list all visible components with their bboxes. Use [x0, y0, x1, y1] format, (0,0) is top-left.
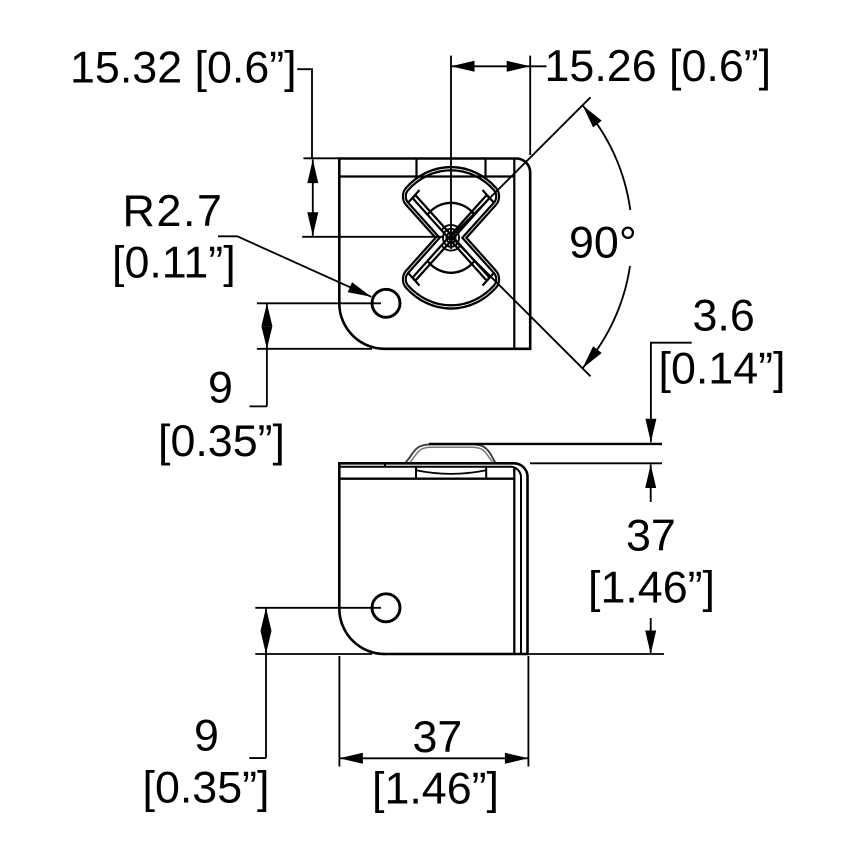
svg-text:[0.11”]: [0.11”]: [112, 238, 236, 288]
dim 15.26 dimension line: [451, 65, 547, 67]
bottom view tab tick 3: [485, 467, 487, 479]
bottom view hole: [372, 594, 400, 622]
bottom view line3: [339, 468, 514, 655]
dim 9 top view arrow down: [261, 326, 272, 349]
90 degree arc lower segment: [583, 266, 631, 368]
dim 3.6 arrow down: [645, 419, 656, 443]
dim 15.32 arrow down: [307, 212, 318, 236]
dim 37 right shaft bottom: [650, 618, 652, 654]
top fan middle arc: [427, 203, 474, 215]
dim 15.26 arrow left: [451, 61, 475, 72]
dim 37 bottom right extension: [527, 656, 529, 767]
svg-text:R2.7: R2.7: [123, 186, 224, 236]
bottom view line2: [339, 467, 521, 654]
bowtie crease outline: [403, 167, 499, 308]
dim 37 bottom arrow left: [339, 753, 363, 764]
dim 37 bottom arrow right: [505, 753, 529, 764]
svg-text:[1.46”]: [1.46”]: [588, 563, 715, 613]
cap fold tick lower-left: [408, 273, 419, 286]
svg-text:37: 37: [626, 511, 676, 561]
dim 37 bottom left extension: [338, 656, 340, 767]
top view bend vertical line: [513, 159, 515, 349]
R2.7 leader: [218, 236, 371, 296]
90 degree line lower: [451, 237, 591, 376]
dim 9 bottom arrow down: [261, 631, 272, 654]
dim 15.32 dimension line: [312, 160, 314, 236]
svg-text:90°: 90°: [569, 218, 637, 268]
svg-text:[0.35”]: [0.35”]: [143, 763, 270, 813]
dim 9 bottom tick: [249, 757, 266, 759]
bottom view hole centerline: [255, 607, 381, 609]
dim 37 right shaft top: [650, 465, 652, 503]
90 degree arc arrow bottom: [583, 346, 602, 368]
dim 37 right arrow up: [645, 465, 656, 489]
svg-text:37: 37: [413, 712, 463, 762]
90 degree line upper: [451, 97, 591, 237]
svg-text:[1.46”]: [1.46”]: [372, 763, 499, 813]
bottom edge extension right: [529, 653, 665, 655]
svg-text:15.26 [0.6”]: 15.26 [0.6”]: [545, 41, 772, 91]
dim 9 top view arrow up: [261, 303, 272, 326]
dim 15.32 arrow up: [307, 160, 318, 184]
svg-text:3.6: 3.6: [693, 291, 755, 341]
bottom fan tiny arc: [442, 245, 461, 250]
dim 37 right arrow down: [645, 631, 656, 655]
slot A inner stadium: [412, 195, 489, 281]
dome inner: [410, 447, 493, 462]
svg-text:[0.35”]: [0.35”]: [158, 416, 285, 466]
svg-text:9: 9: [208, 362, 233, 412]
dim 9 top view tick: [250, 405, 267, 407]
bottom fan middle arc: [427, 261, 474, 273]
dome outer: [406, 444, 496, 462]
top view bend inner line: [339, 175, 514, 177]
dim 9 bottom view dimension line: [265, 608, 267, 758]
center circle large: [443, 229, 459, 247]
cap fold tick upper-right: [483, 190, 494, 203]
dim 15.32 leader from text: [297, 69, 312, 158]
top edge extension line: [530, 462, 662, 464]
svg-text:15.32 [0.6”]: 15.32 [0.6”]: [70, 43, 297, 93]
cap fold tick lower-right: [483, 273, 494, 286]
bottom view tab tick 2: [415, 467, 417, 479]
bowtie cutout edge: [406, 170, 496, 305]
svg-text:9: 9: [194, 711, 219, 761]
top view hole centerline: [257, 302, 381, 304]
dim 9 bottom arrow up: [261, 608, 272, 631]
top view tab tick right: [484, 159, 486, 177]
center circle small: [446, 233, 455, 243]
dim 15.32 extension line top: [303, 157, 338, 159]
dim 9 top view extension bottom: [257, 348, 372, 350]
dome top extension line: [429, 443, 662, 445]
bottom view outline: [339, 463, 527, 654]
dim 15.26 arrow right: [507, 61, 531, 72]
horizontal centerline to X: [302, 236, 444, 238]
top fan tiny arc: [442, 225, 461, 230]
bottom view tab tick 1: [384, 463, 386, 467]
dim 37 bottom dimension line: [339, 757, 528, 759]
dim 9 top view dimension line: [266, 303, 268, 406]
slot B inner stadium: [412, 195, 489, 281]
dim 3.6 leader bracket: [651, 343, 692, 443]
R2.7 leader arrow: [348, 282, 372, 297]
dim 15.26 right extension line: [529, 56, 531, 155]
bottom edge extension left: [255, 653, 372, 655]
top view hole: [372, 289, 400, 317]
bottom view tab sag curve: [416, 470, 486, 474]
cap fold tick upper-left: [408, 190, 419, 203]
90 degree arc upper segment: [583, 105, 631, 210]
svg-text:[0.14”]: [0.14”]: [659, 344, 786, 394]
top view tab tick left: [415, 159, 417, 177]
vertical centerline through X: [450, 56, 452, 249]
top view outline: [339, 159, 530, 349]
90 degree arc arrow top: [583, 105, 602, 127]
X spring feature: [403, 167, 499, 308]
